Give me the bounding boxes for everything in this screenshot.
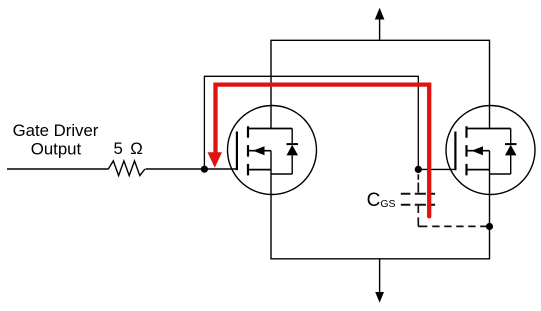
transistor Q2 (right MOSFET) [418,106,535,195]
node C junction dot (source) [486,223,493,230]
Q1 body arrow [253,146,265,155]
Q2 body arrow [472,146,484,155]
capacitor CGS (dashed parasitic) [401,174,488,226]
Q2 channel segments [465,126,467,175]
Q2 body circle [446,106,535,195]
Q1 channel segments [247,126,249,175]
svg-text:Gate Driver: Gate Driver [13,121,99,140]
terminal arrow: source down [375,259,384,303]
Q2 source stub [467,169,490,171]
wire: gate driver output lead [7,168,109,170]
Q1 gate bar [236,132,238,171]
red arrowhead at node A [208,152,223,168]
svg-text:CGS: CGS [367,190,396,211]
resistor R1 [108,161,145,176]
Q2 body diode [490,129,517,175]
wire: resistor to gate node A [146,168,237,170]
CGS top plate [401,193,435,195]
Q1 body circle [228,106,317,195]
node B junction dot [415,166,422,173]
wire: gate loop thin wire from node A up over to node B [204,76,418,169]
label: Gate Driver Output [13,121,99,158]
wire: top rail with drain leads (parallel drains) [271,40,490,128]
Q2 body stub [467,150,490,152]
terminal arrow: drain up [375,8,385,41]
Q1 body stub [248,150,271,152]
red gate current path [208,85,430,217]
node A junction dot [201,166,208,173]
transistor Q1 (left MOSFET) [228,106,317,195]
Q2 gate lead wire [418,168,455,170]
Q1 source stub [248,169,271,171]
CGS top lead dashed [417,174,419,192]
CGS return dashed wire to source node [418,225,487,227]
wire: bottom rail with source leads (parallel sources) [271,151,490,259]
CGS bottom plate [401,204,435,206]
Q2 drain stub [467,128,511,130]
svg-text:Output: Output [31,139,82,158]
Q1 drain stub [248,128,292,130]
Q1 body diode [271,129,298,175]
Q2 gate bar [454,132,456,171]
svg-text:Ω: Ω [130,139,143,158]
svg-text:5: 5 [114,139,123,158]
CGS bottom lead dashed [417,206,419,227]
